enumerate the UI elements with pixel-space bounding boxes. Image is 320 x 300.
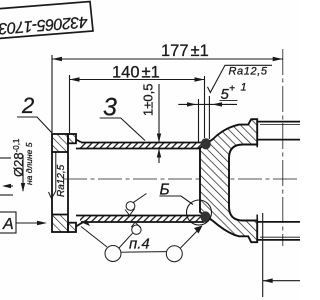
arrowheads dim 140 (70, 77, 80, 82)
centerline vertical (socket axis) (282, 49, 284, 246)
svg-text:140±1: 140±1 (112, 64, 160, 82)
weld nuggets (201, 138, 211, 149)
view A box and arrow (0, 212, 16, 233)
dimension 5 +1 (178, 99, 237, 146)
flange (part 2) (52, 134, 84, 232)
roughness Ra12.5 (left, rotated) (49, 152, 56, 199)
tube (part 3) walls (76, 143, 204, 223)
arrowheads dim 5 (187, 102, 197, 106)
head (socket housing) cross-section (200, 119, 257, 242)
svg-text:Ra12,5: Ra12,5 (56, 164, 67, 197)
svg-text:на длине 5: на длине 5 (24, 142, 34, 185)
arrowheads dim 177 (52, 57, 62, 62)
title block box (top-left, rotated 180 deg text) (0, 2, 93, 41)
thread lines right of mouth (257, 122, 300, 240)
svg-text:А: А (2, 216, 14, 233)
weld nugget bottom (201, 211, 211, 222)
dimension 140 +-1 (70, 75, 210, 139)
arrowheads dim 1+-0.5 (157, 134, 161, 143)
svg-text:1±0,5: 1±0,5 (141, 84, 156, 116)
svg-text:п.4: п.4 (129, 236, 150, 253)
svg-text:177±1: 177±1 (161, 42, 209, 60)
svg-text:3: 3 (103, 94, 117, 122)
detail B circle and label (187, 200, 212, 225)
roughness Ra12.5 (top) (208, 65, 273, 92)
svg-text:1: 1 (241, 82, 247, 94)
arrowheads dia 28 dim (21, 183, 25, 192)
svg-text:5: 5 (221, 86, 230, 103)
svg-text:Ra12,5: Ra12,5 (229, 66, 268, 78)
svg-text:+: + (229, 84, 235, 95)
arrowhead bottom-right dim (263, 278, 273, 283)
weld leader arrowheads (81, 220, 90, 227)
bottom-right dimension (263, 213, 300, 297)
centerline horizontal (63, 178, 300, 180)
svg-text:2: 2 (21, 93, 34, 118)
dimension 177 +-1 (52, 55, 283, 133)
